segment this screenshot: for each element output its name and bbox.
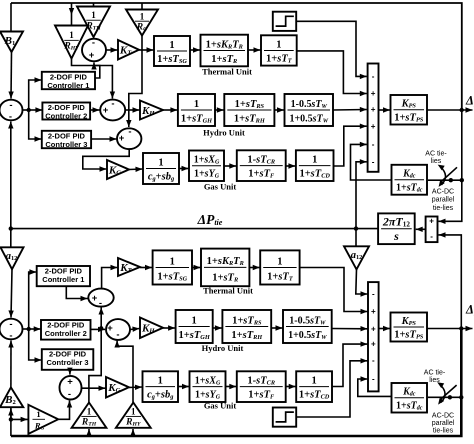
label Thermal Unit area1 (202, 67, 252, 77)
wire controller1 to thermal sum area1 (91, 63, 100, 79)
gain K_G area1 (107, 160, 129, 179)
svg-text:s: s (393, 229, 399, 243)
svg-text:1: 1 (158, 375, 163, 386)
wire a12 right to summer area2 (356, 269, 368, 296)
svg-text:parallel: parallel (432, 420, 455, 427)
wire df1 to tie summer plus (439, 110, 462, 224)
block water turbine (1-0.5sT_W)/(1+0.5sT_W) area2 (283, 310, 332, 343)
switch AC-DC area2 (437, 382, 456, 404)
svg-text:Controller 1: Controller 1 (42, 275, 84, 284)
block power system K_PS/(1+sT_PS) area1 (391, 95, 428, 125)
svg-text:+: + (89, 50, 95, 61)
block combustor (1-sT_CR)/(1+sT_F) area2 (237, 371, 286, 402)
svg-text:-: - (372, 72, 375, 81)
svg-text:+: + (92, 293, 98, 304)
block DC link K_dc/(1+sT_dc) area2 (392, 383, 428, 413)
svg-text:1: 1 (69, 30, 74, 40)
wire droop comp to water turbine area1 (274, 107, 284, 112)
wire gas governor to valve area1 (179, 166, 189, 171)
svg-text:1: 1 (192, 315, 197, 326)
block valve positioner (1+sX_G)/(1+sY_G) area1 (189, 151, 224, 182)
svg-text:-: - (372, 140, 375, 149)
wire bus to controller 3 area2 (29, 329, 42, 363)
wire to droop 1/R_HY area1 (69, 3, 74, 25)
wire Kdc to summer input5 area1 (351, 142, 392, 180)
block droop compensation (1+sT_RS)/(1+sT_RH) area2 (222, 310, 271, 343)
gain K_T area1 (118, 40, 139, 60)
svg-text:Gas Unit: Gas Unit (204, 401, 237, 411)
summer block area 2 (368, 282, 379, 391)
wire power system output df2 (427, 326, 473, 331)
wire droop G to gas sum area2 (58, 401, 72, 420)
svg-text:-: - (430, 232, 433, 241)
svg-text:1+sKRTR: 1+sKRTR (206, 39, 243, 50)
wire turbine to summer input2 area2 (300, 268, 368, 315)
svg-text:lies: lies (431, 158, 442, 165)
wire droop comp to water turbine area2 (271, 325, 282, 330)
label AC-DC parallel tie-lies area2 (432, 413, 455, 435)
label AC-DC parallel tie-lies area1 (432, 189, 455, 212)
wire power system output df1 (427, 107, 473, 112)
gain droop 1/R_HY area2 (116, 403, 151, 428)
wire gas sum to K_G area1 (83, 149, 129, 172)
wire ACE2 to controllers bus (23, 328, 29, 330)
sum ACE area 2 (0, 319, 23, 342)
svg-text:Controller 2: Controller 2 (45, 112, 87, 121)
limiter GRC area2 (273, 408, 296, 427)
sum gas governor area 2 (60, 376, 82, 400)
wire K_H to hydro governor (163, 107, 177, 112)
junction df1 inner (460, 108, 464, 112)
svg-text:1: 1 (277, 256, 282, 267)
wire delta P tie (11, 228, 378, 230)
svg-text:-: - (99, 298, 102, 309)
block thermal governor 1/(1+sT_SG) area2 (153, 250, 192, 284)
block reheat (1+sK_R.T_R)/(1+sT_R) area1 (201, 35, 249, 67)
svg-text:Hydro Unit: Hydro Unit (203, 128, 245, 138)
svg-text:-: - (111, 99, 114, 110)
svg-text:+: + (107, 323, 113, 334)
junction B2 droop tap (9, 417, 13, 421)
svg-text:Gas Unit: Gas Unit (204, 182, 237, 192)
svg-text:parallel: parallel (432, 197, 455, 204)
junction ACE2 bus (27, 327, 31, 331)
block gas governor 1/(c_g+sb_g) area1 (143, 153, 179, 184)
junction Kdc tap area1 (449, 178, 464, 182)
block turbine 1/(1+sT_T) area2 (260, 250, 299, 284)
svg-text:1: 1 (140, 11, 145, 21)
sum thermal governor area 2 (88, 289, 113, 309)
wire gas to summer input4 area1 (334, 124, 367, 167)
svg-text:+: + (371, 340, 376, 349)
sum gas governor area 1 (117, 127, 141, 150)
block compressor discharge 1/(1+sT_CD) area2 (296, 371, 332, 402)
wire droop HY to hydro sum area1 (72, 59, 116, 99)
wire droop TH to thermal sum area2 (89, 308, 104, 403)
switch AC-DC area1 (438, 165, 457, 187)
svg-text:+: + (371, 307, 376, 316)
wire summer to power system area1 (379, 107, 391, 112)
wire bus to controller 3 area1 (29, 110, 42, 142)
svg-text:-: - (128, 127, 131, 138)
block tie sum +- (426, 217, 438, 243)
gain K_T area2 (118, 258, 140, 276)
gain droop 1/R_G area1 (126, 10, 158, 36)
svg-text:Controller 2: Controller 2 (45, 329, 87, 338)
wire K_T to governor area2 (140, 265, 152, 270)
svg-text:1: 1 (312, 154, 317, 165)
block combustor (1-sT_CR)/(1+sT_F) area1 (237, 150, 286, 181)
wire droop HY to hydro sum area2 (114, 341, 133, 403)
wire hydro governor to droop comp area2 (213, 325, 222, 330)
svg-text:Δf1: Δf1 (465, 94, 474, 108)
label Hydro Unit area2 (202, 343, 244, 353)
svg-text:lies: lies (429, 377, 440, 384)
wire droop G to gas sum area1 (126, 36, 142, 128)
block turbine 1/(1+sT_T) area1 (261, 35, 297, 65)
wire bus to controller 1 area1 (29, 77, 42, 110)
gain droop 1/R_TH area2 (72, 403, 107, 428)
wire thermal sum to K_T area2 (102, 265, 118, 289)
wire tie to a12 right (355, 229, 357, 246)
block 2-DOF PID Controller 2 area2 (41, 320, 91, 340)
block gas governor 1/(c_g+sb_g) area2 (143, 371, 179, 402)
wire thermal sum to K_T (106, 47, 118, 52)
svg-text:-: - (372, 290, 375, 299)
svg-text:-: - (9, 100, 12, 111)
gain K_G area2 (106, 377, 129, 398)
svg-text:-: - (372, 375, 375, 384)
block 2-DOF PID Controller 2 area1 (42, 103, 90, 121)
label Gas Unit area1 (204, 182, 237, 192)
block tie line 2piT12/s (378, 213, 415, 244)
gain a12 left (1, 247, 24, 269)
wire combustor to compressor area2 (286, 384, 296, 389)
svg-text:1: 1 (169, 40, 174, 51)
label delta P tie (197, 212, 223, 227)
label output delta-f1 (465, 94, 474, 108)
junction tie to a12 right (354, 226, 358, 230)
wire df2 to Kdc area2 (428, 396, 461, 398)
svg-text:-: - (372, 356, 375, 365)
wire summer to power system area2 (379, 326, 390, 331)
wire df1 to Kdc area1 (428, 179, 462, 181)
sum hydro governor area 1 (100, 99, 125, 121)
wire K_G to gas governor area2 (129, 385, 142, 390)
wire gas to summer input4 area2 (332, 341, 368, 386)
wire B2 arrow into base (8, 409, 13, 420)
wire gas governor to valve area2 (178, 384, 189, 389)
wire limiter to summer input5 area2 (296, 358, 367, 417)
wire controller2 to hydro sum area1 (90, 107, 99, 112)
svg-text:Thermal Unit: Thermal Unit (202, 67, 252, 77)
svg-text:-: - (9, 112, 12, 123)
svg-text:Controller 3: Controller 3 (45, 140, 87, 149)
gain a12 right (344, 246, 369, 269)
svg-text:Controller 1: Controller 1 (47, 81, 89, 90)
wire B1 input drop (10, 3, 12, 31)
block DC link K_dc/(1+sT_dc) area1 (392, 165, 428, 195)
wire valve to combustor area2 (226, 384, 237, 389)
svg-text:-: - (372, 157, 375, 166)
junction tie left (9, 226, 13, 230)
wire tap to droop G area2 (11, 417, 28, 422)
block 2-DOF PID Controller 1 area2 (37, 266, 90, 286)
block valve positioner (1+sX_G)/(1+sY_G) area2 (190, 371, 226, 402)
svg-text:1: 1 (131, 406, 136, 416)
label Thermal Unit area2 (203, 286, 253, 296)
junction droop TH crossing area2 (99, 326, 103, 330)
wire limiter to summer input1 area1 (296, 21, 367, 79)
limiter GRC area1 (273, 12, 296, 31)
svg-text:+: + (371, 89, 376, 98)
wire gas sum to K_G area2 (82, 386, 106, 391)
wire B2 riser (10, 407, 12, 436)
svg-text:-: - (116, 330, 119, 341)
wire hydro governor to droop comp area1 (215, 107, 224, 112)
svg-text:1: 1 (276, 39, 281, 50)
wire hydro to summer input3 area1 (333, 107, 367, 112)
junction Kdc tap area2 (448, 395, 464, 399)
svg-text:AC tie-: AC tie- (425, 151, 447, 158)
svg-text:Δf2: Δf2 (465, 303, 474, 317)
wire to droop 1/R_G area1 (139, 3, 144, 16)
svg-text:cg+sbg: cg+sbg (147, 390, 173, 401)
svg-text:1+sKRTR: 1+sKRTR (207, 256, 244, 267)
gain B1 (0, 32, 23, 53)
svg-text:-: - (68, 389, 71, 400)
gain B2 (0, 387, 23, 407)
svg-text:AC-DC: AC-DC (432, 189, 454, 196)
svg-text:1: 1 (91, 10, 96, 20)
wire turbine to summer input2 area1 (297, 51, 367, 96)
svg-text:Hydro Unit: Hydro Unit (202, 343, 244, 353)
wire top feedback rail area 1 (11, 3, 462, 110)
block power system K_PS/(1+sT_PS) area2 (391, 313, 428, 342)
wire bus to controller 2 area1 (29, 107, 43, 112)
svg-text:+: + (371, 105, 376, 114)
block hydro governor 1/(1+sT_GH) area1 (178, 94, 215, 126)
block thermal governor 1/(1+sT_SG) area1 (154, 36, 190, 66)
svg-text:1: 1 (170, 256, 175, 267)
sum ACE area 1 (0, 100, 23, 123)
block water turbine (1-0.5sT_W)/(1+0.5sT_W) area1 (285, 94, 334, 126)
svg-text:Thermal Unit: Thermal Unit (203, 286, 253, 296)
wire B1 to ACE sum 1 (8, 52, 13, 99)
svg-text:1: 1 (194, 99, 199, 110)
label Hydro Unit area1 (203, 128, 245, 138)
svg-text:cg+sbg: cg+sbg (148, 172, 174, 183)
wire tie to a12 left (10, 229, 12, 247)
svg-text:+: + (67, 377, 73, 388)
wire reheat to turbine area1 (248, 47, 261, 52)
svg-text:1: 1 (36, 409, 40, 419)
wire controller2 to hydro sum area2 (91, 327, 106, 332)
label AC tie-lies area1 (425, 151, 447, 166)
gain droop 1/R_TH area1 (77, 7, 110, 38)
wire hydro sum to K_H (125, 107, 139, 112)
sum hydro governor area 2 (106, 319, 130, 340)
label AC tie-lies area2 (424, 370, 446, 385)
wire df2 to tie summer minus (439, 232, 462, 328)
wire ACE1 to controllers bus (23, 109, 29, 111)
svg-text:1: 1 (311, 375, 316, 386)
block droop compensation (1+sT_RS)/(1+sT_RH) area1 (224, 94, 274, 126)
wire tie sum to integrator (416, 227, 426, 232)
summer block area 1 (368, 64, 379, 172)
wire controller3 to gas sum area2 (67, 368, 72, 375)
wire to droop 1/R_TH area1 (93, 3, 95, 7)
svg-text:+: + (371, 122, 376, 131)
wire controller1 to thermal sum area2 (66, 286, 87, 301)
wire rail to droop HY area2 (130, 429, 135, 436)
gain K_H area2 (140, 318, 163, 339)
wire hydro to summer input3 area2 (332, 326, 368, 331)
svg-text:-: - (9, 331, 12, 342)
block 2-DOF PID Controller 3 area1 (42, 131, 91, 149)
svg-text:-: - (9, 319, 12, 330)
svg-text:AC-DC: AC-DC (432, 413, 454, 420)
wire bus to controller 1 area2 (29, 269, 37, 329)
wire K_T to governor (139, 47, 154, 52)
svg-text:-: - (92, 38, 95, 49)
wire hydro sum to K_H area2 (130, 327, 140, 332)
svg-text:AC tie-: AC tie- (424, 370, 446, 377)
svg-text:+: + (103, 105, 109, 116)
svg-text:+: + (429, 217, 434, 226)
svg-text:+: + (371, 324, 376, 333)
wire a12 left to ACE2 (8, 269, 13, 317)
gain K_H area1 (140, 101, 163, 120)
wire K_G to gas governor area1 (129, 167, 143, 172)
block reheat (1+sK_R.T_R)/(1+sT_R) area2 (201, 249, 249, 287)
label output delta-f2 (465, 303, 474, 317)
wire droop TH to thermal sum area1 (93, 36, 96, 39)
block hydro governor 1/(1+sT_GH) area2 (176, 310, 213, 343)
wire summer input6 from tie area1 (356, 159, 367, 229)
svg-text:1: 1 (87, 406, 92, 416)
wire valve to combustor area1 (224, 163, 236, 168)
svg-text:tie-lies: tie-lies (433, 428, 454, 435)
wire combustor to compressor area1 (286, 163, 296, 168)
sum thermal governor area 1 (82, 38, 106, 62)
wire Kdc to summer input6 area2 (358, 376, 392, 396)
wire tie to ACE1 (8, 122, 13, 229)
svg-text:Controller 3: Controller 3 (47, 358, 89, 367)
label Gas Unit area2 (204, 401, 237, 411)
wire B2 to ACE2 (8, 341, 13, 388)
junction df2 inner (459, 326, 463, 330)
wire rail to droop TH area2 (86, 429, 91, 436)
wire bottom feedback rail area 2 (11, 329, 461, 437)
wire governor to reheat area2 (192, 265, 201, 270)
svg-text:1: 1 (158, 157, 163, 168)
wire reheat to turbine area2 (249, 265, 259, 270)
gain droop 1/R_G area2 (28, 405, 58, 434)
wire bus to controller 2 area2 (29, 326, 41, 331)
junction ACE1 bus (27, 108, 31, 112)
block 2-DOF PID Controller 3 area2 (42, 349, 94, 370)
svg-text:tie-lies: tie-lies (433, 205, 454, 212)
wire K_H to hydro governor area2 (163, 325, 175, 330)
wire controller3 to gas sum area1 (91, 136, 116, 141)
svg-text:+: + (119, 133, 125, 144)
wire governor to reheat area1 (190, 47, 200, 52)
gain droop 1/R_HY area1 (55, 26, 88, 59)
block compressor discharge 1/(1+sT_CD) area1 (296, 150, 334, 181)
block 2-DOF PID Controller 1 area1 (42, 72, 95, 90)
